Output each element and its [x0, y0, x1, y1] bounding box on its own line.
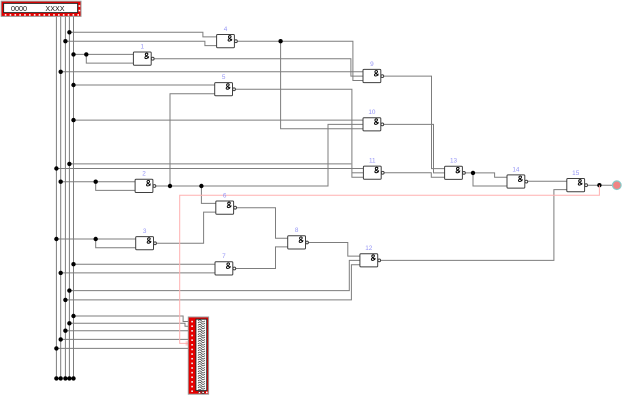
NAND gate 1 [133, 43, 154, 65]
net G11 out -> G13 pin3 [384, 173, 444, 178]
net bus->display pin2 [69, 323, 190, 326]
bus line 4 [68, 17, 70, 379]
junction bus line 1 / G11 pin1 net [54, 166, 58, 170]
16-bit display/probe component (rotated, value xxxx) [188, 317, 208, 394]
NAND gate 13 [445, 158, 466, 180]
branch G2 out -> G5 pin3 [170, 94, 215, 186]
NAND gate 11 [363, 158, 384, 180]
net G2 out -> G10 pin2 [156, 124, 363, 186]
NAND gate 2 [135, 171, 156, 193]
junction bus line 5 / G5 pin1 net [71, 83, 75, 87]
junction bus line 4 / G12 pin2 net [67, 288, 71, 292]
NAND gate 9 [363, 61, 384, 83]
bus line 4 end [67, 376, 71, 380]
svg-text:11: 11 [369, 158, 376, 165]
net bus stub y164 [69, 163, 351, 165]
junction G13 output fanout [471, 171, 475, 175]
NAND gate 4 [217, 26, 238, 48]
bus line 5 [73, 17, 75, 379]
net bus->G4 pin1 [69, 32, 216, 37]
net G9 out -> G13 pin1 [384, 76, 445, 169]
junction bus line 2 / G9 pin1 net [59, 70, 63, 74]
branch G2 out -> G6 pin1 [201, 186, 215, 203]
branch G13 out -> G14 pin3 [473, 173, 507, 186]
net G12 out -> G15 pin3 [381, 190, 567, 261]
net G1 out -> G9 pin2 [154, 59, 363, 76]
net bus->G10 pin1 [74, 119, 364, 121]
svg-text:XXXX: XXXX [45, 4, 64, 13]
net bus->G7 pin1 [74, 263, 216, 265]
bus line 2 [60, 17, 62, 379]
NAND gate 10 [363, 109, 384, 131]
net G7 out -> G8 pin3 [236, 247, 288, 269]
bus line 2 end [59, 376, 63, 380]
junction bus line 1 / G3 net [54, 237, 58, 241]
NAND gate 6 [216, 192, 237, 214]
branch G4 out -> G10 pin3 [281, 41, 363, 129]
junction bus line 2 / G7 pin3 net [59, 271, 63, 275]
svg-text:4: 4 [224, 26, 228, 33]
svg-text:10: 10 [368, 109, 376, 116]
svg-text:8: 8 [295, 227, 299, 234]
bus line 5 end [71, 376, 75, 380]
svg-text:13: 13 [450, 158, 458, 165]
junction bus line 4 / G4 pin1 net [67, 30, 71, 34]
junction bus line 2 / display pin5 net [59, 337, 63, 341]
branch ->G2 pin3 [96, 182, 135, 191]
net G10 out -> G13 pin2 [384, 124, 445, 172]
junction bus line 5 / G10 pin1 net [71, 118, 75, 122]
net bus->G4 pin3 [65, 41, 216, 45]
junction G3 input split [94, 237, 98, 241]
net bus->G2 pin1 [61, 181, 135, 183]
net G4 out -> G9 pin3 [237, 41, 363, 80]
svg-text:9: 9 [370, 61, 374, 68]
NAND gate 15 [567, 170, 588, 192]
junction G2 input split [94, 180, 98, 184]
junction output net / pink wire [597, 183, 601, 187]
net G6 out -> G8 pin1 [237, 208, 288, 239]
pink selection handle [186, 341, 190, 345]
net bus->G1 pin1 [74, 53, 134, 55]
net bus->display pin1 [74, 316, 191, 322]
input pin block (16-bit, value 0000XXXX) [1, 1, 81, 16]
junction G4 output fanout [278, 39, 282, 43]
output pin (value X) [613, 181, 622, 190]
svg-text:7: 7 [222, 253, 226, 260]
NAND gate 12 [360, 245, 381, 267]
NAND gate 14 [507, 166, 528, 188]
bus line 1 end [54, 376, 58, 380]
svg-text:0000: 0000 [11, 4, 27, 13]
bus line 3 [64, 17, 66, 379]
pink selected net (output -> display pin6) [180, 185, 600, 343]
net G3 out -> G6 pin3 [157, 212, 216, 243]
bus line 3 end [63, 376, 67, 380]
net bus->G12 pin3 [65, 265, 360, 300]
junction bus line 3 / display pin3 net [63, 329, 67, 333]
svg-text:3: 3 [143, 228, 147, 235]
net bus->display pin7 [56, 347, 190, 349]
NAND gate 5 [215, 74, 236, 96]
svg-text:6: 6 [223, 192, 227, 199]
net bus->G5 pin1 [74, 84, 215, 86]
net bus->G3 pin1 [56, 238, 135, 240]
svg-text:2: 2 [142, 171, 146, 178]
net bus->display pin3 [65, 330, 190, 332]
NAND gate 7 [215, 253, 236, 275]
junction bus line 1 / display pin7 net [54, 346, 58, 350]
NAND gate 3 [136, 228, 157, 250]
net bus->display pin5 [61, 338, 191, 340]
junction bus line 4 / stub net [67, 162, 71, 166]
junction bus line 5 / G1 net [71, 52, 75, 56]
branch ->G1 pin3 [86, 54, 133, 63]
junction G2 output -> G6 pin1 branch [199, 184, 203, 188]
svg-text:15: 15 [572, 170, 580, 177]
net bus->G9 pin1 [61, 71, 363, 73]
junction G2 output -> G5 pin3 branch [168, 184, 172, 188]
junction bus line 3 / G12 pin3 net [63, 298, 67, 302]
net G14 out -> G15 pin1 [528, 180, 567, 182]
junction bus line 2 / G2 net [59, 180, 63, 184]
branch -> G11 pin2 [352, 172, 364, 174]
bus line 1 [55, 17, 57, 379]
svg-text:1: 1 [141, 43, 145, 50]
svg-text:12: 12 [365, 245, 373, 252]
svg-text:14: 14 [512, 166, 520, 173]
junction bus line 5 / display pin1 net [71, 314, 75, 318]
net G13 out -> G14 pin1 [465, 173, 507, 177]
net G15 out -> output pin [588, 184, 613, 186]
junction G1 input split [84, 52, 88, 56]
junction bus line 3 / G4 pin3 net [63, 39, 67, 43]
net bus->G12 pin2 [69, 260, 360, 290]
junction bus line 4 / display pin2 net [67, 321, 71, 325]
net G8 out -> G12 pin1 [309, 243, 360, 257]
branch ->G3 pin3 [96, 239, 136, 248]
NAND gate 8 [288, 227, 309, 249]
junction bus line 5 / G7 pin1 net [71, 262, 75, 266]
net G5 out -> G11 pin3 [236, 89, 364, 177]
net bus->G11 pin1 [56, 168, 363, 170]
svg-text:5: 5 [222, 74, 226, 81]
net bus->G7 pin3 [61, 272, 215, 274]
